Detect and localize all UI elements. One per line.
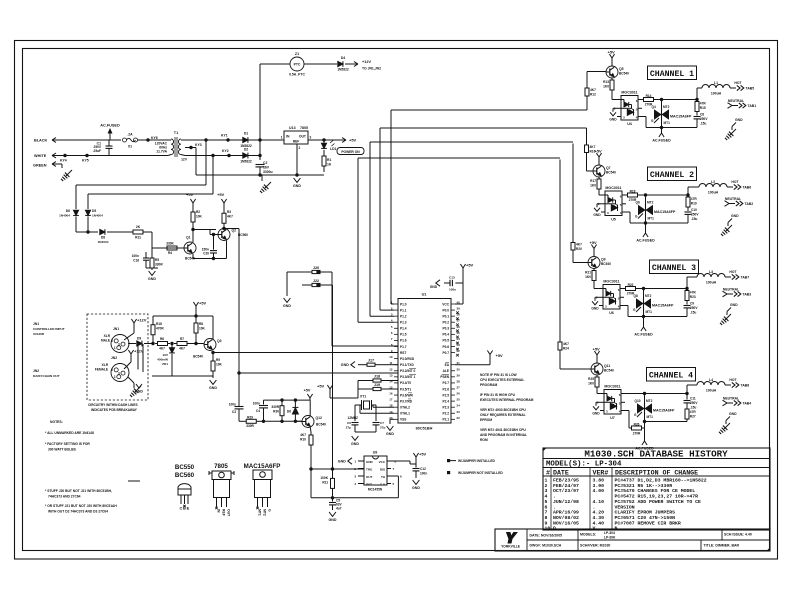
ground R9: [210, 380, 217, 384]
svg-text:250V: 250V: [691, 213, 699, 217]
svg-text:C16: C16: [133, 259, 139, 263]
svg-text:1N4004: 1N4004: [98, 240, 109, 244]
svg-text:36: 36: [457, 325, 461, 329]
snubber capacitor C10: [687, 208, 689, 211]
svg-text:R30: R30: [273, 410, 279, 414]
wire 555 feedback loop: [311, 497, 398, 499]
svg-text:39: 39: [457, 307, 461, 311]
svg-text:PSEN: PSEN: [440, 375, 449, 379]
svg-text:NOTES:: NOTES:: [50, 420, 63, 424]
svg-text:C2: C2: [263, 161, 267, 165]
wire MT1 rail ch3: [644, 316, 688, 318]
diode D8: [100, 229, 105, 234]
power +5V Q7: [598, 157, 600, 162]
svg-text:P1.6: P1.6: [400, 339, 407, 343]
svg-text:MAC15A6FP: MAC15A6FP: [654, 210, 676, 214]
svg-text:330R: 330R: [155, 263, 163, 267]
svg-text:+5V: +5V: [419, 452, 427, 457]
svg-text:PC#5472 R15,19,23,27 10R->47R: PC#5472 R15,19,23,27 10R->47R: [615, 494, 699, 500]
svg-text:W/JUMPER NOT INSTALLED: W/JUMPER NOT INSTALLED: [458, 471, 503, 475]
capacitor C3: [235, 406, 244, 408]
svg-text:MOC3011: MOC3011: [603, 280, 619, 284]
svg-text:4u7: 4u7: [336, 507, 342, 511]
svg-text:EA: EA: [445, 363, 450, 367]
channel 3 title box: [650, 260, 699, 274]
capacitor C1: [106, 145, 113, 147]
svg-text:P1.0: P1.0: [400, 302, 407, 306]
svg-text:U6: U6: [609, 311, 614, 315]
svg-text:U4: U4: [627, 122, 632, 126]
resistor R7: [174, 343, 177, 345]
junction KY1: [226, 138, 229, 141]
wire bus P1.0: [390, 110, 392, 304]
snubber capacitor C11: [686, 394, 688, 400]
svg-text:J17: J17: [368, 359, 374, 363]
wire MT1 rail ch2: [646, 222, 689, 224]
svg-text:Q8: Q8: [634, 294, 638, 298]
wire ground rail: [196, 174, 324, 176]
wire osc bottom rail: [264, 420, 303, 422]
svg-text:R12: R12: [590, 93, 596, 97]
svg-text:33: 33: [457, 343, 461, 347]
svg-text:R17: R17: [590, 179, 596, 183]
wire Q12 collector: [309, 400, 311, 416]
capacitor C12: [415, 464, 417, 468]
svg-text:ZD1: ZD1: [162, 362, 168, 366]
wire emitter to opto ch4: [596, 389, 598, 394]
svg-text:DWG#: M1030.SCH: DWG#: M1030.SCH: [530, 544, 562, 548]
svg-text:EPROM: EPROM: [480, 418, 492, 422]
svg-text:SCH ISSUE: 4.40: SCH ISSUE: 4.40: [724, 533, 752, 537]
svg-text:VER#: VER#: [593, 469, 609, 476]
wire Q1-Q2 link: [193, 229, 210, 231]
svg-text:16: 16: [389, 392, 393, 396]
ground VSS: [390, 418, 394, 420]
svg-text:10: 10: [389, 355, 393, 359]
svg-text:GND: GND: [730, 303, 738, 307]
wire T1 secondary bottom: [185, 155, 260, 157]
svg-text:D6: D6: [287, 410, 291, 414]
optocoupler U5 MOC3011: [605, 191, 622, 216]
svg-text:C11: C11: [690, 397, 696, 401]
wire U13 out to +5V: [308, 139, 341, 141]
svg-text:AC.FUSED: AC.FUSED: [634, 333, 653, 337]
svg-text:R25: R25: [588, 377, 594, 381]
svg-text:D9: D9: [137, 337, 141, 341]
svg-text:+5V: +5V: [349, 138, 357, 143]
snubber resistor R27: [686, 407, 688, 410]
svg-text:+12V: +12V: [137, 318, 147, 323]
svg-text:100uH: 100uH: [706, 389, 717, 393]
wire emitter to opto ch3: [593, 283, 595, 289]
svg-text:4K7: 4K7: [563, 342, 569, 346]
snubber resistor R19: [687, 196, 689, 197]
inductor L4: [686, 385, 688, 394]
transistor Q12 BC540: [302, 416, 314, 428]
svg-text:7805: 7805: [300, 126, 308, 130]
svg-text:Q2: Q2: [232, 229, 237, 233]
svg-text:ALE: ALE: [443, 369, 449, 373]
svg-text:17: 17: [389, 398, 393, 402]
ground JN2: [128, 377, 134, 383]
svg-text:R7: R7: [180, 337, 184, 341]
label POWER ON: [337, 148, 364, 155]
inductor L2: [687, 187, 689, 195]
resistor R21: [593, 269, 595, 271]
svg-text:13: 13: [389, 373, 393, 377]
svg-text:J20: J20: [313, 266, 319, 270]
resistor R12 drive: [586, 87, 588, 88]
svg-text:OUT: OUT: [227, 509, 231, 517]
svg-text:8: 8: [545, 515, 548, 521]
svg-text:#: #: [546, 469, 550, 476]
svg-text:P1.5: P1.5: [400, 333, 407, 337]
junction KY6: [146, 138, 149, 141]
inductor L1: [696, 88, 698, 100]
svg-text:OCT/23/97: OCT/23/97: [553, 488, 579, 494]
optocoupler U7 MOC3011: [604, 390, 621, 415]
svg-text:250V: 250V: [690, 306, 698, 310]
svg-text:300 WATT BULBS: 300 WATT BULBS: [48, 448, 77, 452]
wire base Q3: [190, 343, 204, 345]
snubber capacitor C9: [686, 302, 688, 305]
svg-text:GND: GND: [731, 214, 739, 218]
svg-text:P2.1: P2.1: [442, 418, 449, 422]
dashed breakaway box: [87, 314, 148, 400]
svg-text:OUT: OUT: [299, 135, 307, 139]
svg-text:400mW: 400mW: [157, 358, 168, 362]
svg-text:+12V: +12V: [134, 349, 144, 354]
svg-text:C8: C8: [700, 113, 704, 117]
resistor R1: [323, 150, 325, 156]
svg-text:CPU EXECUTES EXTERNAL: CPU EXECUTES EXTERNAL: [480, 378, 524, 382]
power +12V JN2: [130, 354, 132, 359]
svg-text:G: G: [268, 509, 272, 512]
junction KY2: [227, 154, 230, 157]
svg-text:BC540: BC540: [316, 423, 326, 427]
svg-text:12V: 12V: [181, 158, 188, 162]
svg-text:R4: R4: [168, 251, 172, 255]
svg-text:P2.5: P2.5: [442, 393, 449, 397]
svg-text:R11: R11: [135, 236, 141, 240]
wire crystal caps ground: [355, 431, 376, 433]
terminal HOT TAB6: [727, 186, 733, 188]
ground C12: [413, 480, 420, 484]
svg-text:L1: L1: [714, 81, 718, 85]
wire U13 pin2 down: [296, 144, 298, 175]
svg-text:R29: R29: [247, 415, 253, 419]
svg-text:3: 3: [310, 136, 312, 140]
svg-text:R27: R27: [690, 415, 696, 419]
svg-text:FEMALE: FEMALE: [95, 368, 108, 372]
svg-text:EXECUTES INTERNAL PROGRAM: EXECUTES INTERNAL PROGRAM: [480, 398, 534, 402]
svg-text:DIS: DIS: [380, 468, 385, 472]
svg-text:1: 1: [545, 478, 548, 484]
svg-text:P3.1/TXD: P3.1/TXD: [400, 363, 415, 367]
title block sch ver: [700, 540, 702, 551]
svg-text:TITLE: DIMMER_BAR: TITLE: DIMMER_BAR: [704, 544, 740, 548]
triac Q6 MAC15A6FP: [645, 195, 647, 204]
svg-text:U5: U5: [611, 218, 616, 222]
svg-text:Q4: Q4: [652, 105, 656, 109]
svg-text:APR/16/99: APR/16/99: [553, 510, 579, 516]
svg-text:D6: D6: [66, 209, 70, 213]
capacitor C4: [263, 400, 265, 404]
svg-text:CONTROLLER INPUT: CONTROLLER INPUT: [33, 327, 65, 331]
svg-text:MAC15A6FP: MAC15A6FP: [652, 304, 674, 308]
svg-text:PC#7007 REMOVE CIR BRKR: PC#7007 REMOVE CIR BRKR: [615, 520, 681, 526]
diode D6: [294, 400, 296, 407]
svg-text:P0.1: P0.1: [442, 314, 449, 318]
svg-text:.: .: [593, 505, 596, 510]
wire J20 to RST: [330, 271, 332, 273]
fuse X1: [123, 138, 127, 142]
svg-text:BC540: BC540: [604, 369, 614, 373]
svg-text:PC#5470 CHANGES FOR CE MODEL: PC#5470 CHANGES FOR CE MODEL: [615, 488, 696, 494]
svg-text:Q10: Q10: [635, 399, 641, 403]
wire bus channel3: [370, 141, 573, 143]
resistor R13: [611, 78, 613, 80]
svg-text:C7: C7: [380, 421, 384, 425]
svg-text:4K7: 4K7: [590, 88, 596, 92]
svg-text:R20: R20: [576, 247, 582, 251]
svg-text:4.00: 4.00: [593, 488, 605, 494]
svg-text:GND: GND: [430, 285, 438, 289]
svg-text:.15u: .15u: [700, 122, 706, 126]
svg-text:GND: GND: [591, 306, 599, 310]
svg-text:BC560: BC560: [175, 472, 195, 479]
wire gate ch1: [642, 116, 646, 118]
svg-text:GND: GND: [412, 486, 420, 490]
svg-text:TO JN1,JN2: TO JN1,JN2: [362, 67, 381, 71]
svg-text:3.80: 3.80: [593, 478, 605, 484]
terminal AC.FUSED ch4: [644, 422, 646, 442]
svg-text:TAB6: TAB6: [743, 186, 752, 190]
thermistor Z1 PTC: [260, 63, 290, 65]
svg-text:NEUTRAL: NEUTRAL: [728, 99, 744, 103]
svg-text:GND: GND: [283, 304, 291, 308]
resistor R24 drive: [559, 341, 561, 342]
capacitor C6: [354, 405, 356, 421]
resistor R9: [211, 351, 214, 354]
table corner mark top-left: [543, 448, 546, 451]
svg-text:CIRCUITRY WITHIN DASH LINES: CIRCUITRY WITHIN DASH LINES: [88, 403, 138, 407]
svg-text:TAB3: TAB3: [743, 293, 752, 297]
svg-text:INDICATES PCB BREAKAWAY: INDICATES PCB BREAKAWAY: [91, 408, 138, 412]
svg-text:R23: R23: [690, 295, 696, 299]
svg-text:U13: U13: [289, 126, 296, 130]
svg-text:MAC15A6FP: MAC15A6FP: [653, 409, 675, 413]
svg-text:AC.FUSED: AC.FUSED: [652, 139, 671, 143]
svg-text:22: 22: [457, 416, 461, 420]
svg-text:100n: 100n: [420, 472, 427, 476]
jumper J17: [351, 362, 355, 368]
wire Q1 collector: [192, 226, 194, 242]
svg-text:GND: GND: [386, 432, 394, 436]
svg-text:CHANNEL 3: CHANNEL 3: [652, 264, 696, 273]
junction KY4: [63, 154, 66, 157]
triac Q8 MAC15A6FP: [643, 289, 645, 298]
svg-text:R26: R26: [634, 423, 640, 427]
svg-text:WITH OUT D2 74HC373 AND D3 27C: WITH OUT D2 74HC373 AND D3 27C64: [48, 510, 108, 514]
channel 4 title box: [647, 368, 696, 382]
svg-text:10V: 10V: [162, 353, 168, 357]
svg-text:1K: 1K: [327, 163, 332, 167]
terminal NEUTRAL TAB2: [725, 201, 730, 207]
svg-text:29: 29: [457, 373, 461, 377]
svg-text:+12V: +12V: [362, 60, 371, 64]
transistor Q7: [593, 165, 605, 177]
svg-text:MT1: MT1: [258, 509, 262, 516]
svg-text:T1: T1: [174, 131, 178, 135]
svg-text:1K0: 1K0: [585, 275, 591, 279]
terminal NEUTRAL TAB3: [723, 291, 728, 297]
svg-text:R1: R1: [327, 158, 331, 162]
svg-text:NOV/08/02: NOV/08/02: [553, 515, 579, 521]
svg-text:R18: R18: [630, 190, 636, 194]
wire sense B down: [212, 156, 214, 195]
svg-text:VER MT# 4930 80C51BH CPU: VER MT# 4930 80C51BH CPU: [480, 408, 526, 412]
svg-text:LP-304: LP-304: [604, 531, 615, 535]
terminal HOT TAB5: [730, 87, 736, 89]
capacitor C7: [373, 404, 376, 406]
svg-text:100uH: 100uH: [711, 92, 722, 96]
svg-text:P3.7/RD: P3.7/RD: [400, 399, 413, 403]
svg-text:25: 25: [457, 398, 461, 402]
capacitor C5: [332, 498, 334, 502]
svg-text:P0.5: P0.5: [442, 339, 449, 343]
svg-text:28: 28: [457, 379, 461, 383]
svg-text:D1: D1: [244, 132, 248, 136]
svg-text:P2.6: P2.6: [442, 387, 449, 391]
svg-text:R15: R15: [700, 106, 706, 110]
svg-text:330R: 330R: [271, 405, 279, 409]
svg-text:P3.2/INT 0: P3.2/INT 0: [400, 369, 415, 373]
svg-text:1: 1: [281, 136, 283, 140]
svg-text:Z1: Z1: [295, 52, 299, 56]
svg-text:37: 37: [457, 319, 461, 323]
wire J22 down: [330, 284, 333, 286]
terminal +5V main: [341, 139, 346, 141]
terminal HOT TAB8: [725, 384, 731, 386]
svg-text:ROM: ROM: [480, 438, 488, 442]
svg-text:23: 23: [457, 410, 461, 414]
wire Q1-Q2 link: [193, 229, 216, 231]
wire bus P1.3: [357, 158, 359, 322]
svg-text:TAB7: TAB7: [741, 276, 750, 280]
wire gate ch2: [626, 211, 630, 213]
svg-text:30: 30: [457, 367, 461, 371]
wire JN1-JN2 pins: [137, 346, 139, 370]
title block frame: [495, 529, 770, 551]
svg-text:4K7: 4K7: [576, 242, 582, 246]
svg-text:11.7VA: 11.7VA: [156, 150, 167, 154]
svg-text:MODEL(S):- LP-304: MODEL(S):- LP-304: [546, 461, 622, 469]
svg-text:MT1: MT1: [647, 415, 654, 419]
svg-text:VCC: VCC: [379, 460, 386, 464]
svg-text:P3.0/RXD: P3.0/RXD: [400, 357, 415, 361]
svg-text:DATE: NOV/16/2005: DATE: NOV/16/2005: [530, 534, 563, 538]
wire Q2 emitter down: [226, 241, 228, 259]
jumper J18: [364, 380, 373, 382]
ground J20/J22: [284, 298, 291, 302]
svg-text:MT2: MT2: [663, 105, 670, 109]
wire PTC to D4: [304, 63, 337, 65]
channel 2 title box: [648, 167, 697, 181]
ground C13: [436, 280, 440, 286]
svg-text:PC#6571 C20 47N->150N: PC#6571 C20 47N->150N: [615, 515, 676, 521]
svg-text:IF PIN 31 IS HIGH CPU: IF PIN 31 IS HIGH CPU: [480, 393, 516, 397]
svg-text:GND: GND: [593, 213, 601, 217]
svg-text:1N5822: 1N5822: [240, 160, 252, 164]
svg-text:DATE: DATE: [553, 469, 569, 476]
channel 1 title box: [648, 66, 697, 80]
power +5V jumpers: [329, 389, 331, 394]
svg-text:.15u: .15u: [691, 217, 697, 221]
svg-text:AC.FUSED: AC.FUSED: [636, 239, 655, 243]
svg-text:XTAL2: XTAL2: [400, 405, 410, 409]
svg-text:15: 15: [389, 385, 393, 389]
svg-text:AC.FUSED: AC.FUSED: [100, 124, 120, 128]
legend jumper not installed: [447, 471, 450, 474]
svg-text:+5V: +5V: [593, 347, 601, 352]
power VCC MCU: [455, 303, 463, 305]
svg-text:POWER ON: POWER ON: [341, 150, 360, 154]
svg-text:NEUTRAL: NEUTRAL: [725, 197, 741, 201]
terminal HOT TAB7: [725, 276, 731, 278]
svg-text:MT1: MT1: [648, 217, 655, 221]
svg-text:4: 4: [545, 494, 548, 500]
svg-text:3300u: 3300u: [263, 170, 273, 174]
diode D1: [243, 137, 248, 142]
svg-text:MT2: MT2: [647, 201, 654, 205]
diode D5: [85, 210, 90, 215]
svg-text:26: 26: [457, 392, 461, 396]
svg-text:R9: R9: [216, 358, 220, 362]
wire bus channel1: [391, 109, 587, 111]
svg-text:MOC3011: MOC3011: [604, 385, 620, 389]
svg-text:4.20: 4.20: [593, 510, 605, 516]
svg-text:1K0: 1K0: [603, 85, 609, 89]
legend jumper installed: [447, 459, 450, 462]
capacitor C20: [213, 236, 215, 250]
svg-text:14: 14: [389, 379, 393, 383]
snubber resistor R15: [696, 101, 698, 102]
svg-text:+5V: +5V: [496, 353, 504, 358]
wire Q3 emitter to MCU: [213, 352, 398, 354]
transistor Q11: [591, 363, 603, 375]
svg-text:+5V: +5V: [217, 192, 225, 197]
svg-text:XCHDR: XCHDR: [33, 332, 45, 336]
svg-text:GND: GND: [293, 184, 301, 188]
svg-text:1: 1: [114, 346, 116, 350]
svg-text:250V: 250V: [700, 117, 708, 121]
svg-text:WHITE: WHITE: [34, 154, 47, 158]
svg-text:16V: 16V: [263, 166, 270, 170]
svg-text:CHANNEL 4: CHANNEL 4: [649, 371, 693, 380]
svg-text:4K7: 4K7: [179, 347, 185, 351]
svg-text:2: 2: [299, 146, 301, 150]
transistor Q1: [184, 242, 196, 254]
svg-text:MALE: MALE: [101, 339, 110, 343]
svg-text:7805: 7805: [214, 463, 228, 470]
transistor Q3: [204, 339, 216, 351]
svg-text:4.40: 4.40: [593, 520, 605, 526]
svg-text:FEB/23/95: FEB/23/95: [553, 478, 579, 484]
svg-text:XLR: XLR: [102, 363, 109, 367]
svg-text:BLACK: BLACK: [34, 139, 48, 143]
svg-text:100n: 100n: [253, 402, 260, 406]
